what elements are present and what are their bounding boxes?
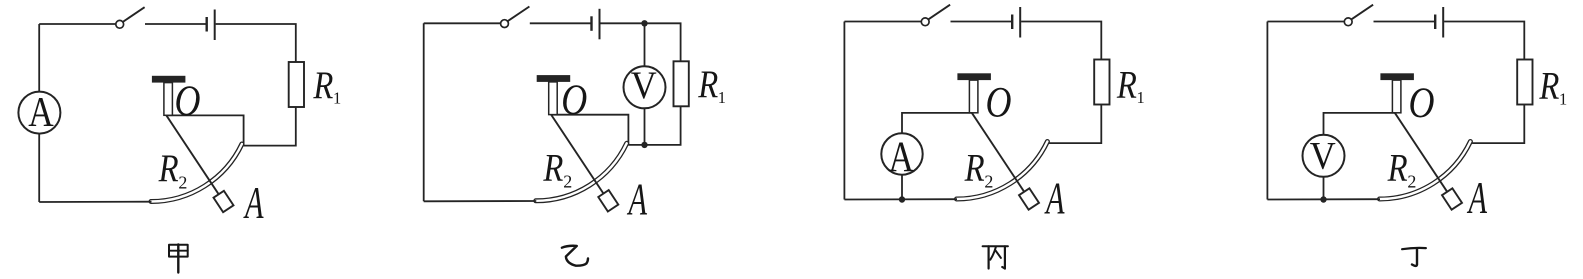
svg-text:1: 1	[333, 89, 341, 108]
pivot pin (ding)	[1392, 80, 1401, 113]
svg-text:A: A	[888, 133, 914, 181]
wire: pivot O left and down to meter (bing)	[902, 113, 972, 133]
pivot support bar (yi)	[537, 75, 571, 82]
svg-text:O: O	[175, 77, 201, 125]
svg-text:A: A	[627, 173, 648, 224]
svg-text:1: 1	[1137, 88, 1145, 107]
ammeter A (jia circuit, left branch)	[18, 90, 60, 136]
label R2 (bing)	[964, 145, 994, 191]
svg-text:O: O	[1409, 79, 1435, 127]
wire: left vertical bottom (jia)	[38, 134, 40, 203]
svg-text:2: 2	[1407, 172, 1416, 192]
caption 丙 (bing)	[983, 246, 1008, 268]
node: top junction dot (yi)	[641, 20, 647, 26]
battery (jia)	[207, 10, 215, 41]
pivot support bar (bing)	[957, 73, 991, 80]
svg-text:R: R	[1539, 64, 1560, 108]
wire: top node down to voltmeter (yi)	[644, 23, 646, 66]
pivot support bar (ding)	[1380, 73, 1414, 80]
wire: bottom (bing)	[844, 198, 957, 200]
wire: switch to battery (ding)	[1374, 21, 1435, 23]
wire: battery to top right corner, down to R1 (bing)	[1021, 22, 1101, 60]
circuit 乙 (second): voltmeter parallel with R1	[424, 7, 726, 225]
wire: R1 bottom to arc top junction (ding)	[1472, 105, 1524, 144]
ammeter A between O and bottom wire (bing)	[881, 133, 922, 181]
svg-text:R: R	[964, 145, 985, 189]
battery (ding)	[1435, 7, 1443, 38]
label R2 (yi)	[543, 145, 573, 191]
svg-text:R: R	[158, 146, 179, 190]
wire: top left to switch (ding)	[1267, 21, 1344, 23]
wire: meter down to bottom wire (bing)	[901, 175, 903, 200]
voltmeter V between O and bottom wire (ding)	[1303, 133, 1345, 177]
resistor R1 (jia)	[289, 62, 304, 107]
battery (yi)	[592, 9, 600, 40]
label R2 (ding)	[1387, 145, 1417, 191]
pivot support bar (jia)	[152, 76, 186, 83]
svg-text:2: 2	[563, 172, 572, 192]
label R2 (jia)	[158, 146, 188, 192]
wire: meter down to bottom wire (ding)	[1323, 177, 1325, 200]
wire: battery to top right corner, down to R1 (ding)	[1444, 22, 1524, 60]
switch S (jia)	[116, 7, 145, 28]
rheostat resistive arc R2 track (yi)	[536, 143, 627, 201]
svg-text:A: A	[1044, 173, 1065, 224]
wire: R1 bottom to arc top junction (bing)	[1049, 105, 1101, 144]
rheostat resistive arc R2 track (jia)	[151, 144, 242, 202]
pivot pin (bing)	[969, 80, 978, 113]
svg-text:V: V	[631, 63, 657, 107]
caption 乙 (yi)	[562, 246, 588, 266]
wire: switch to battery (bing)	[951, 21, 1012, 23]
node: junction dot on bottom wire (bing)	[899, 196, 905, 202]
svg-text:R: R	[313, 63, 334, 107]
wire: battery to top right corner, down to R1 (jia)	[216, 24, 296, 62]
resistor R1 (ding)	[1517, 60, 1532, 105]
label R1 (jia)	[313, 63, 342, 108]
wire: voltmeter down to bottom node (yi)	[644, 108, 646, 145]
circuit 甲 (first): ammeter in series on left	[18, 7, 341, 228]
svg-text:O: O	[561, 76, 587, 124]
wire: left vertical (ding)	[1266, 22, 1268, 200]
node: bottom junction dot (yi)	[641, 142, 647, 148]
wire: left vertical (bing)	[843, 22, 845, 200]
wire: top left to switch (yi)	[424, 22, 501, 24]
pendulum bob A (yi)	[598, 190, 618, 211]
switch S (yi)	[501, 7, 530, 28]
wire: top left to switch (jia)	[39, 23, 116, 25]
svg-text:V: V	[1310, 133, 1336, 177]
rheostat resistive arc R2 track (ding)	[1380, 142, 1471, 200]
wire: R1 bottom to arc top junction (yi)	[628, 106, 680, 145]
svg-text:2: 2	[178, 172, 187, 192]
label R1 (yi)	[697, 62, 726, 107]
wire: R1 bottom to arc top junction (jia)	[244, 107, 296, 146]
node: junction dot on bottom wire (ding)	[1320, 196, 1326, 202]
svg-text:R: R	[543, 145, 564, 189]
caption 甲 (jia)	[169, 244, 188, 272]
svg-text:1: 1	[1559, 90, 1567, 109]
resistor R1 (yi)	[674, 61, 689, 106]
wire: top left to switch (bing)	[844, 21, 921, 23]
svg-text:O: O	[986, 79, 1012, 127]
resistor R1 (bing)	[1094, 60, 1109, 105]
svg-text:R: R	[697, 62, 718, 106]
pendulum bob A (jia)	[214, 191, 234, 212]
wire: bottom (yi)	[424, 200, 537, 202]
pivot pin (jia)	[164, 83, 173, 116]
pendulum bob A (ding)	[1442, 188, 1462, 209]
wire: bottom (jia)	[39, 201, 151, 203]
wire: bottom (ding)	[1267, 198, 1380, 200]
wire: pivot O to right, down to arc top (jia)	[166, 115, 243, 145]
pendulum rod from O (ding)	[1395, 113, 1447, 192]
svg-text:A: A	[1467, 172, 1488, 223]
wire: left vertical top (jia)	[38, 24, 40, 92]
pendulum rod from O (jia)	[166, 115, 218, 194]
label R1 (bing)	[1116, 62, 1145, 107]
pendulum bob A (bing)	[1019, 188, 1039, 209]
wire: pivot O to right, down to arc top (yi)	[551, 115, 628, 145]
wire: node to top right corner (yi)	[645, 23, 681, 61]
svg-text:1: 1	[718, 88, 726, 107]
voltmeter V parallel with R1 (yi)	[624, 63, 666, 108]
pendulum rod from O (yi)	[551, 115, 603, 194]
label R1 (ding)	[1539, 64, 1568, 109]
circuit 丁 (fourth): voltmeter between O and bottom wire	[1267, 5, 1567, 223]
svg-text:R: R	[1387, 145, 1408, 189]
rheostat resistive arc R2 track (bing)	[957, 142, 1048, 200]
svg-text:A: A	[28, 90, 54, 136]
svg-text:R: R	[1116, 62, 1137, 106]
switch S (ding)	[1344, 5, 1373, 26]
switch S (bing)	[921, 5, 950, 26]
pendulum rod from O (bing)	[972, 113, 1024, 192]
svg-text:2: 2	[984, 172, 993, 192]
pivot pin (yi)	[549, 82, 558, 115]
wire: switch to battery (jia)	[145, 23, 206, 25]
wire: pivot O left and down to meter (ding)	[1324, 113, 1395, 135]
circuit 丙 (third): ammeter between O and bottom wire	[844, 5, 1144, 224]
svg-text:A: A	[243, 177, 264, 228]
wire: left vertical (yi)	[423, 23, 425, 201]
wire: switch to battery (yi)	[530, 22, 591, 24]
battery (bing)	[1012, 7, 1020, 38]
wire: battery to node (yi)	[600, 22, 644, 24]
caption 丁 (ding)	[1402, 248, 1426, 266]
